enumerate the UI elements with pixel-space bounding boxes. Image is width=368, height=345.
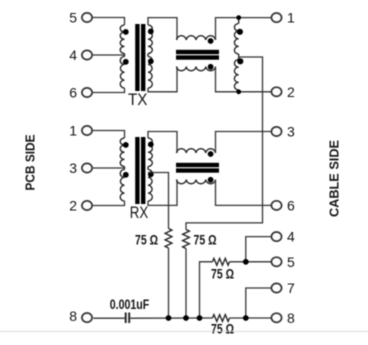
- wire RX secondary top to choke L2: [148, 132, 177, 154]
- wire pin1 to RX primary top: [93, 131, 125, 139]
- wire choke L1 bottom to pin 2: [216, 67, 272, 92]
- svg-text:75 Ω: 75 Ω: [211, 265, 234, 281]
- svg-text:PCB SIDE: PCB SIDE: [23, 134, 38, 190]
- ground rail wire: [130, 317, 212, 319]
- svg-text:0.001uF: 0.001uF: [110, 296, 150, 312]
- choke L2 core: [176, 163, 219, 167]
- RX secondary phasing dot upper: [148, 142, 154, 148]
- transformer RX core: [135, 137, 139, 204]
- T3 phasing dot lower: [237, 58, 243, 64]
- pin 6 (PCB side) terminal: [82, 88, 92, 97]
- wire choke L2 bottom to pin 6: [216, 180, 272, 206]
- choke L1 top phasing dot: [208, 38, 214, 44]
- transformer RX secondary winding: [148, 138, 152, 167]
- svg-text:75 Ω: 75 Ω: [211, 320, 234, 336]
- svg-text:8: 8: [287, 310, 295, 326]
- pin 2 (cable side) terminal: [271, 87, 281, 96]
- svg-text:6: 6: [69, 85, 77, 101]
- RX primary phasing dot lower: [123, 172, 129, 178]
- wire R1 to ground rail: [168, 248, 170, 318]
- TX secondary phasing dot upper: [148, 29, 154, 35]
- svg-text:6: 6: [287, 197, 295, 213]
- pin 2 (PCB side) terminal: [82, 201, 92, 210]
- svg-text:3: 3: [69, 160, 77, 176]
- RX primary phasing dot upper: [123, 142, 129, 148]
- choke L1 core: [176, 50, 219, 54]
- svg-text:75 Ω: 75 Ω: [135, 232, 158, 248]
- pin 7 (cable side) terminal: [271, 283, 281, 292]
- wire TX secondary top to choke L1: [148, 18, 177, 40]
- resistor R3 75ohm: [213, 258, 230, 265]
- choke L1 top winding: [177, 36, 216, 40]
- svg-text:5: 5: [69, 10, 77, 26]
- T3 phasing dot upper: [237, 29, 243, 35]
- transformer TX core: [135, 24, 139, 91]
- choke L2 top winding: [177, 149, 216, 153]
- resistor R2 75ohm: [183, 230, 190, 249]
- pin 4 (PCB side) terminal: [82, 50, 92, 59]
- wire TX secondary bottom to choke L1: [148, 67, 177, 92]
- junction T3 bottom on pin2 rail: [236, 89, 241, 94]
- pin 4 (cable side) terminal: [271, 232, 281, 241]
- svg-text:4: 4: [69, 47, 77, 63]
- pin 5 (PCB side) terminal: [82, 13, 92, 22]
- transformer TX secondary winding: [148, 25, 152, 54]
- svg-text:2: 2: [287, 84, 295, 100]
- resistor R1 75ohm: [165, 229, 172, 249]
- choke L2 bottom winding: [177, 180, 216, 184]
- resistor R4 75ohm: [213, 315, 230, 322]
- choke L2 bottom phasing dot: [208, 177, 214, 183]
- TX primary phasing dot lower: [123, 59, 129, 65]
- wire pin6 to TX primary bottom: [93, 88, 125, 93]
- TX primary phasing dot upper: [123, 29, 129, 35]
- faint horizontal artifact line: [0, 331, 368, 333]
- svg-text:5: 5: [287, 254, 295, 270]
- junction branch on rail: [197, 315, 203, 321]
- wire pin4 to TX primary center tap: [93, 54, 125, 56]
- pin 8 (PCB side) terminal: [82, 313, 92, 322]
- TX secondary phasing dot lower: [148, 58, 154, 64]
- wire pin3 to RX primary center tap: [93, 167, 125, 169]
- junction R4 pins 7-8: [243, 315, 249, 321]
- transformer RX primary winding: [120, 138, 124, 167]
- wire pin2 to RX primary bottom: [93, 201, 125, 206]
- svg-text:8: 8: [69, 308, 77, 324]
- wire pin5 to TX primary top: [93, 18, 125, 26]
- pin 3 (PCB side) terminal: [82, 163, 92, 172]
- pin 8 (cable side) terminal: [271, 313, 281, 322]
- wire R4 to pins 7 and 8: [230, 317, 246, 319]
- RX secondary phasing dot lower: [148, 171, 154, 177]
- svg-text:2: 2: [69, 198, 77, 214]
- svg-text:7: 7: [287, 280, 295, 296]
- capacitor C1 0.001uF: [125, 313, 127, 324]
- choke L1 bottom phasing dot: [208, 64, 214, 70]
- svg-text:TX: TX: [128, 91, 148, 109]
- svg-text:3: 3: [287, 124, 295, 140]
- pin 3 (cable side) terminal: [271, 127, 281, 136]
- pin 1 (cable side) terminal: [271, 13, 281, 22]
- wire pin8 to capacitor C1: [93, 317, 124, 319]
- wire choke L1 top to pin 1: [216, 18, 272, 40]
- wire RX secondary bottom to choke L2: [148, 180, 177, 206]
- junction R3 pins 4-5: [243, 259, 249, 265]
- junction T3 top on pin1 rail: [236, 15, 241, 20]
- junction R2 on rail: [183, 315, 189, 321]
- pin 6 (cable side) terminal: [271, 201, 281, 210]
- svg-text:CABLE SIDE: CABLE SIDE: [327, 140, 342, 217]
- transformer TX primary winding: [120, 25, 124, 54]
- autotransformer T3 winding: [238, 18, 240, 24]
- wire T3 center tap down to R2: [186, 57, 263, 230]
- wire RX center tap to R1: [148, 173, 169, 229]
- wire R2 to ground rail: [185, 249, 187, 319]
- svg-text:RX: RX: [130, 204, 148, 222]
- svg-text:1: 1: [69, 123, 77, 139]
- svg-text:75 Ω: 75 Ω: [194, 232, 217, 248]
- pin 1 (PCB side) terminal: [82, 126, 92, 135]
- wire choke L2 top to pin 3: [216, 132, 272, 154]
- choke L2 top phasing dot: [208, 151, 214, 157]
- svg-text:1: 1: [287, 10, 295, 26]
- wire rail branch up to R3: [200, 262, 213, 318]
- junction R1 on rail: [166, 315, 172, 321]
- wire R3 to pins 4 and 5: [230, 261, 246, 263]
- choke L1 bottom winding: [177, 67, 216, 71]
- svg-text:4: 4: [287, 229, 295, 245]
- pin 5 (cable side) terminal: [271, 257, 281, 266]
